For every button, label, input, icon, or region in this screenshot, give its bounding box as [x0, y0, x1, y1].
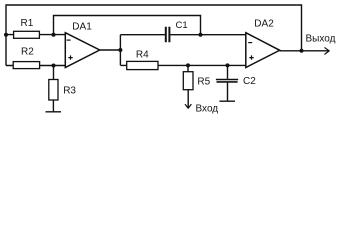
svg-text:Вход: Вход: [196, 103, 219, 114]
svg-text:DA1: DA1: [72, 22, 92, 33]
svg-text:R2: R2: [21, 47, 34, 58]
svg-text:R5: R5: [197, 76, 210, 87]
svg-text:R3: R3: [63, 86, 76, 97]
svg-text:R4: R4: [136, 50, 149, 61]
svg-text:DA2: DA2: [254, 18, 274, 29]
svg-text:Выход: Выход: [306, 34, 336, 45]
svg-text:C1: C1: [176, 20, 188, 31]
svg-text:C2: C2: [243, 76, 256, 87]
svg-text:R1: R1: [21, 18, 34, 29]
